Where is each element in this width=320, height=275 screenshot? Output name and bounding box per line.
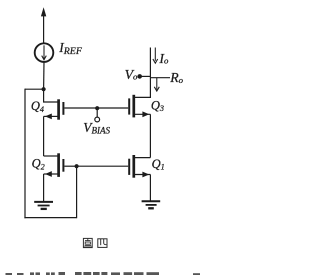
caption: figure number glyph 圖 xyxy=(83,238,92,247)
wire: riser to gate node B xyxy=(76,166,78,218)
wire: Q1 drain lead xyxy=(134,157,150,159)
svg-text:Ro: Ro xyxy=(169,70,183,85)
wire: Q4 source to Q2 drain xyxy=(43,116,45,156)
arrow: Ro looking-in arrow xyxy=(154,78,159,91)
transistor Q3 xyxy=(129,95,150,118)
wire: top lead above current source with arrowhead xyxy=(41,7,46,43)
node A junction dot xyxy=(42,87,46,91)
wire: VBIAS stub xyxy=(96,108,98,117)
wire: VBIAS gate line Q4 to Q3 xyxy=(64,107,128,109)
current source IREF xyxy=(35,43,54,62)
terminal VBIAS open circle xyxy=(95,117,100,122)
ground (Q2) xyxy=(34,202,53,209)
caption: figure number glyph 四 xyxy=(98,239,107,248)
wire: node A left to rail xyxy=(25,88,44,90)
transistor Q4 xyxy=(44,99,64,119)
wire: output branch vertical xyxy=(149,48,151,98)
svg-text:Q3: Q3 xyxy=(151,98,164,113)
wire: gate line node B to Q1 gate xyxy=(77,165,129,167)
wire: Q3 source to Q1 drain xyxy=(149,114,151,157)
svg-text:Io: Io xyxy=(158,51,169,66)
wire: Q1 source to ground xyxy=(149,175,151,202)
ground (Q1) xyxy=(142,201,161,208)
transistor Q2 xyxy=(44,153,77,177)
wire: Q2 drain lead xyxy=(44,155,59,157)
wire: current source to node A xyxy=(43,62,45,89)
wire: node A down to Q4 drain xyxy=(44,89,59,102)
current arrow Io xyxy=(153,48,158,64)
wire: Ro pointer line xyxy=(150,77,170,79)
node Vo dot xyxy=(137,74,142,79)
cropped text line at bottom edge xyxy=(6,272,201,275)
svg-text:Q1: Q1 xyxy=(152,157,165,172)
node B junction dot xyxy=(75,164,79,168)
svg-text:Q2: Q2 xyxy=(32,157,45,172)
transistor Q1 xyxy=(129,155,150,178)
wire: Q2 source to ground xyxy=(43,174,45,202)
svg-text:Q4: Q4 xyxy=(31,99,44,114)
wire: bottom rail xyxy=(24,217,76,219)
wire: Vo stub xyxy=(140,75,151,77)
wire: Q3 drain lead xyxy=(134,96,151,98)
node VBIAS junction dot xyxy=(95,106,99,110)
svg-text:Vo: Vo xyxy=(125,67,138,82)
wire: left rail down xyxy=(24,89,26,219)
svg-text:IREF: IREF xyxy=(58,40,83,57)
